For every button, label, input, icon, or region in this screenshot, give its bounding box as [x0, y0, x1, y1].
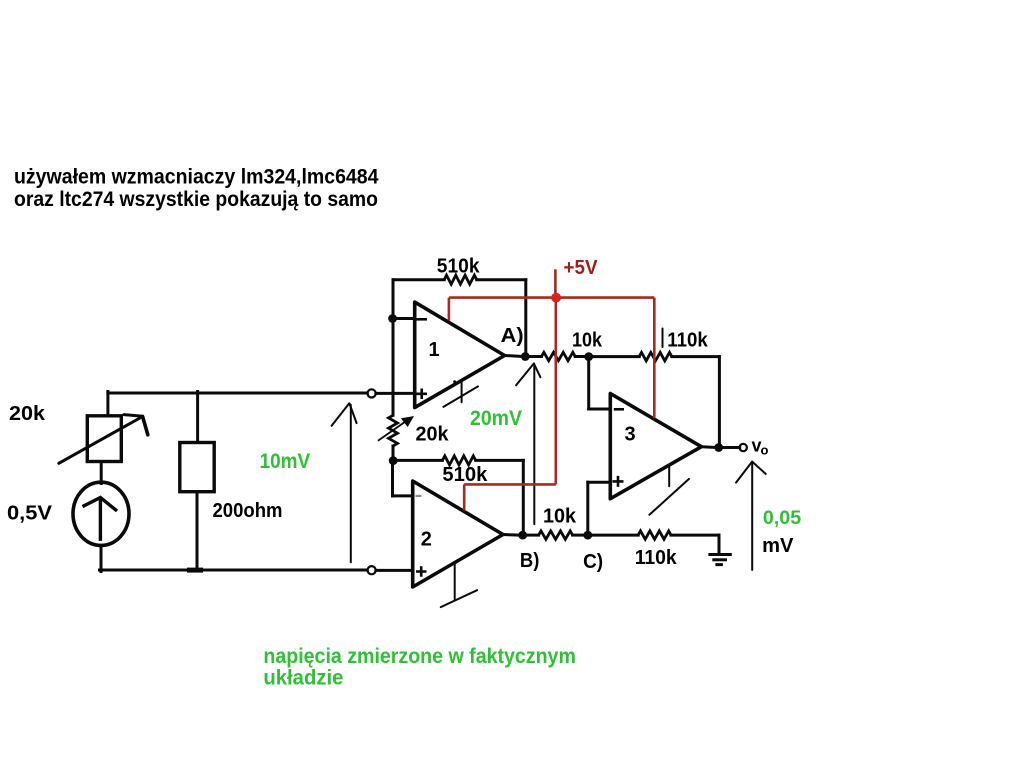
svg-text:20mV: 20mV [470, 406, 523, 430]
svg-text:mV: mV [762, 535, 794, 557]
svg-text:C): C) [583, 551, 603, 573]
svg-text:o: o [761, 443, 769, 458]
svg-text:20k: 20k [416, 424, 450, 446]
svg-text:20k: 20k [9, 403, 46, 425]
svg-text:oraz ltc274 wszystkie pokazują: oraz ltc274 wszystkie pokazują to samo [14, 188, 378, 211]
svg-text:10k: 10k [543, 506, 577, 528]
svg-text:1: 1 [429, 339, 440, 361]
svg-text:2: 2 [421, 529, 432, 551]
svg-text:+5V: +5V [564, 257, 599, 279]
svg-text:A): A) [501, 325, 524, 347]
svg-text:B): B) [520, 550, 540, 572]
svg-text:układzie: układzie [263, 667, 343, 690]
svg-text:510k: 510k [437, 255, 481, 277]
svg-text:0,05: 0,05 [763, 508, 802, 529]
svg-text:10k: 10k [572, 330, 603, 352]
svg-text:110k: 110k [667, 330, 708, 352]
svg-text:napięcia zmierzone w faktyczny: napięcia zmierzone w faktycznym [263, 645, 576, 668]
svg-text:używałem wzmacniaczy lm324,lmc: używałem wzmacniaczy lm324,lmc6484 [14, 166, 379, 189]
svg-text:110k: 110k [635, 547, 678, 569]
svg-text:200ohm: 200ohm [213, 500, 283, 522]
svg-text:0,5V: 0,5V [7, 503, 53, 525]
svg-text:510k: 510k [442, 464, 488, 486]
svg-text:10mV: 10mV [260, 449, 311, 473]
svg-text:3: 3 [625, 424, 636, 446]
